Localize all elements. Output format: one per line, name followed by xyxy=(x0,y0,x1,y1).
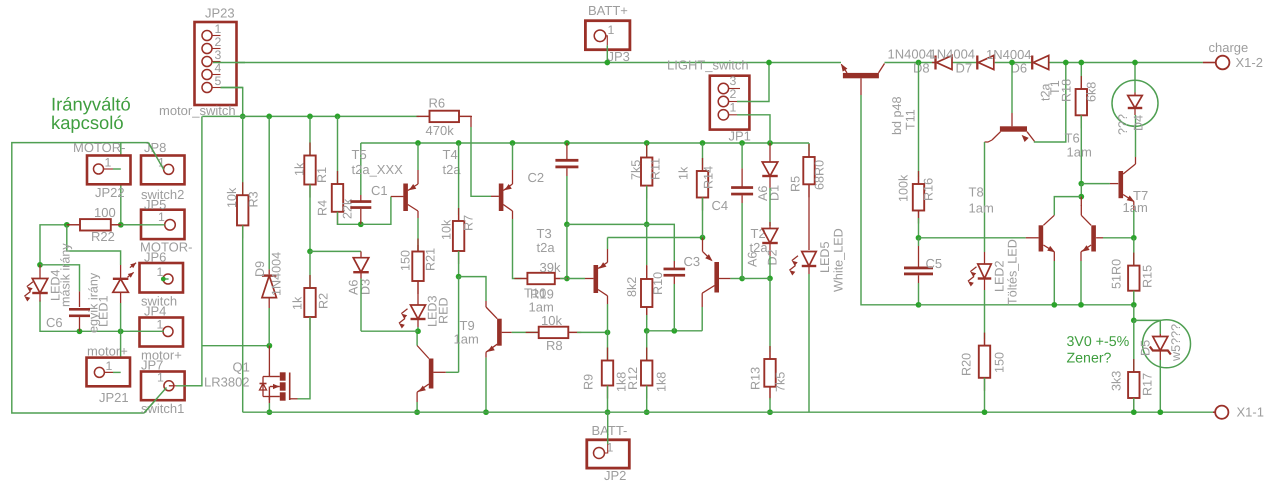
svg-text:LIGHT_switch: LIGHT_switch xyxy=(667,58,749,73)
svg-text:C4: C4 xyxy=(712,198,729,213)
svg-text:1am: 1am xyxy=(529,300,554,315)
junction T7 emitter node xyxy=(1131,235,1137,241)
wire BATT+ rail right of T11 to D8 xyxy=(885,62,936,64)
wire R2 bottom to Q1 gate xyxy=(298,317,311,399)
wire R12 column xyxy=(646,331,648,361)
junction T5 emitter xyxy=(415,140,421,146)
svg-text:T5: T5 xyxy=(352,147,367,162)
svg-text:T6: T6 xyxy=(1065,131,1080,146)
junction R10 bottom node xyxy=(644,328,650,334)
LED LED2 xyxy=(984,252,986,264)
wire R15 column xyxy=(1133,238,1135,266)
junction D2/R13 node xyxy=(767,276,773,282)
wire T9 collector red upper xyxy=(485,301,487,307)
wire T7 collector to D4 xyxy=(1135,115,1137,157)
wire R5 bottom to LED5 xyxy=(808,184,810,250)
resistor R7 xyxy=(458,215,460,221)
wire D2 bottom to node xyxy=(769,256,771,278)
wire D9 column upper xyxy=(268,116,270,269)
resistor R5 xyxy=(808,151,810,157)
svg-text:JP8: JP8 xyxy=(144,140,166,155)
diode D9 xyxy=(268,269,270,274)
svg-text:R4: R4 xyxy=(316,200,330,216)
resistor R13 xyxy=(769,352,771,359)
wire T5 emitter to rail xyxy=(417,143,419,170)
wire D6 to X1-2 segment xyxy=(1049,62,1203,64)
resistor R8 xyxy=(526,331,539,333)
wire R16 column upper xyxy=(918,63,920,178)
svg-text:1am: 1am xyxy=(969,201,994,216)
svg-text:R21: R21 xyxy=(424,248,438,271)
capacitor C3 xyxy=(673,261,675,269)
svg-text:1k: 1k xyxy=(291,296,305,310)
connector JP7 xyxy=(141,372,185,401)
svg-text:10k: 10k xyxy=(541,313,562,328)
circle D5 highlight xyxy=(1143,320,1191,368)
wire R18 node to pair collector node xyxy=(1080,184,1082,197)
capacitor C1 xyxy=(360,195,362,202)
wire C4 bottom to node xyxy=(741,203,743,279)
wire diagonal to JP8 xyxy=(148,143,163,170)
svg-text:100: 100 xyxy=(94,205,116,220)
junction R13 on rail xyxy=(767,409,773,415)
wire JP23 pin5 to motor_switch node xyxy=(221,88,243,117)
wire R7 bottom xyxy=(458,251,460,277)
wire T3 base xyxy=(567,278,585,280)
wire R4 bottom corner to node xyxy=(338,212,361,225)
LED LED3 xyxy=(417,281,419,305)
wire C2 bottom to node xyxy=(566,176,568,224)
junction R18 top on rail xyxy=(1078,60,1084,66)
transistor T10 xyxy=(702,238,704,252)
JP1 pin3 stub xyxy=(729,88,740,90)
svg-text:1: 1 xyxy=(106,359,113,373)
svg-text:RED: RED xyxy=(437,297,451,324)
junction C5 bottom / T11 base node xyxy=(916,302,922,308)
wire R20 bottom to rail xyxy=(984,378,986,412)
junction D1 top / JP1 pin1 xyxy=(767,140,773,146)
wire motor_switch rail left arm xyxy=(202,115,242,117)
T5 base stub xyxy=(391,196,404,198)
svg-text:R11: R11 xyxy=(649,158,663,180)
wire JP2 to ground rail xyxy=(607,412,609,444)
svg-text:R5: R5 xyxy=(789,176,803,192)
wire R8 right to T3 collector node xyxy=(577,331,608,333)
LED LED5 xyxy=(802,252,817,267)
wire JP21 stub overlay xyxy=(104,371,113,373)
diode D3 xyxy=(360,251,362,257)
wire D5 branch xyxy=(1134,320,1161,334)
connector JP4 xyxy=(140,318,184,347)
diode D6 xyxy=(1031,56,1033,70)
junction R20 on rail xyxy=(982,409,988,415)
wire T9 base to R8 xyxy=(512,331,539,333)
svg-text:JP21: JP21 xyxy=(99,390,129,405)
svg-text:R17: R17 xyxy=(1141,373,1155,396)
svg-text:LED2: LED2 xyxy=(993,260,1007,292)
wire JP7 diagonal overlay xyxy=(144,388,167,414)
svg-text:R15: R15 xyxy=(1141,265,1155,288)
wire JP22 row to riser xyxy=(113,168,121,170)
wire T7 emitter down to node xyxy=(1133,210,1135,238)
wire T8 base row xyxy=(919,237,1026,239)
svg-text:1am: 1am xyxy=(454,332,479,347)
svg-text:motor_switch: motor_switch xyxy=(159,103,236,118)
junction C4 bottom node xyxy=(739,276,745,282)
wire T3 emitter riser xyxy=(607,238,609,250)
wire R1 column upper xyxy=(309,116,311,155)
wire node down to R13 xyxy=(769,278,771,352)
resistor R11 xyxy=(646,145,648,158)
junction D5 on rail xyxy=(1157,409,1163,415)
svg-text:1: 1 xyxy=(157,318,164,332)
svg-text:LR3802: LR3802 xyxy=(204,375,250,390)
T4 base stub xyxy=(491,195,499,197)
svg-text:White_LED: White_LED xyxy=(832,228,846,292)
junction C2 bottom xyxy=(564,222,570,228)
wire R17 bottom to rail xyxy=(1133,398,1135,412)
svg-text:R22: R22 xyxy=(91,229,115,244)
svg-text:68R0: 68R0 xyxy=(813,160,827,190)
wire T6 base to T7 emitter node xyxy=(1103,237,1134,239)
wire R14 bottom to T10 emitter node xyxy=(702,198,704,238)
junction T1 lead on rail xyxy=(1063,60,1069,66)
svg-text:1: 1 xyxy=(158,210,165,224)
wire JP22 riser x120.8 xyxy=(120,143,122,225)
resistor R10 xyxy=(646,265,648,279)
capacitor C2 xyxy=(566,143,568,160)
svg-text:???: ??? xyxy=(1116,114,1130,135)
svg-text:R7: R7 xyxy=(462,215,476,231)
svg-text:1am: 1am xyxy=(1123,200,1148,215)
svg-text:JP2: JP2 xyxy=(604,468,626,483)
svg-text:R2: R2 xyxy=(317,293,331,309)
gate lead Q1 xyxy=(290,398,298,400)
wire left border net: JP8 row xyxy=(12,143,149,413)
resistor R20 xyxy=(984,339,986,346)
wire T5 collector to R21 xyxy=(417,218,419,252)
wire Q1 source to ground rail xyxy=(268,397,270,404)
svg-text:2: 2 xyxy=(215,35,222,49)
wire T1 right lead to rail xyxy=(1034,63,1066,143)
wire R12 bottom to rail xyxy=(646,386,648,413)
connector JP21 xyxy=(87,358,131,387)
svg-text:R13: R13 xyxy=(749,367,763,390)
svg-text:D2: D2 xyxy=(766,249,780,265)
svg-text:T4: T4 xyxy=(443,147,458,162)
wire JP22 stub overlay xyxy=(104,168,114,170)
wire JP23 pin3 into box xyxy=(213,62,245,64)
junction pair collector node xyxy=(1078,194,1084,200)
svg-text:10k: 10k xyxy=(225,187,239,208)
junction R16/C5/T8-base node xyxy=(916,235,922,241)
wire R13 bottom to rail xyxy=(769,387,771,398)
svg-text:JP4: JP4 xyxy=(144,304,166,319)
LED LED1 xyxy=(120,265,122,279)
transistor Q1 drain lead xyxy=(268,346,270,373)
wire T8 emitter down xyxy=(1053,261,1055,305)
resistor R1 xyxy=(309,143,311,156)
wire T7 base xyxy=(1081,183,1110,185)
svg-text:BATT-: BATT- xyxy=(592,423,628,438)
connector JP2 xyxy=(587,440,630,468)
svg-text:1: 1 xyxy=(608,23,615,37)
svg-text:2: 2 xyxy=(730,87,737,101)
svg-text:3V0 +-5%: 3V0 +-5% xyxy=(1067,334,1130,350)
wire R22 right to JP5 xyxy=(121,224,165,226)
wire C1 top to emitter rail xyxy=(360,143,362,195)
svg-text:470k: 470k xyxy=(426,123,455,138)
svg-text:charge: charge xyxy=(1209,40,1249,55)
wire JP7 right lead overlay xyxy=(169,385,176,387)
junction C3 bottom xyxy=(671,328,677,334)
junction T7 base node xyxy=(1078,181,1084,187)
svg-text:JP3: JP3 xyxy=(608,49,630,64)
junction R17 on rail xyxy=(1131,409,1137,415)
wire R4 column upper xyxy=(337,116,339,184)
wire R10-C3-T10 row xyxy=(647,330,703,332)
transistor T1 xyxy=(1011,113,1013,126)
wire bottom LED row y331.3 xyxy=(40,301,164,332)
svg-text:1N4004: 1N4004 xyxy=(270,252,284,296)
svg-text:1N4004: 1N4004 xyxy=(888,47,934,62)
wire R14 column upper xyxy=(702,143,704,165)
wire LED5 bottom to ground rail xyxy=(808,274,810,412)
wire R20 column xyxy=(984,305,986,339)
svg-text:6k8: 6k8 xyxy=(1085,82,1099,102)
wire D4 top from rail xyxy=(1134,63,1136,93)
svg-text:150: 150 xyxy=(993,352,1007,373)
capacitor C5 xyxy=(918,246,920,267)
wire R19 right lead xyxy=(560,278,567,280)
junction R14 top xyxy=(700,140,706,146)
junction T9 emitter on rail xyxy=(483,409,489,415)
transistor T7 xyxy=(1119,171,1124,198)
transistor T2 xyxy=(417,346,429,359)
svg-text:JP5: JP5 xyxy=(144,197,166,212)
wire R3 column upper xyxy=(242,116,244,195)
transistor T4 xyxy=(499,184,504,212)
wire JP23 pin5 into box xyxy=(221,87,243,89)
JP3 pin stub xyxy=(606,36,608,46)
wire C4 node to D2 node xyxy=(742,277,770,279)
junction R7 bottom xyxy=(456,274,462,280)
wire JP7 right lead to Q1 drain node xyxy=(174,116,202,385)
wire JP1 pin1 to emitter rail xyxy=(729,114,737,116)
wire LED3 bottom to node xyxy=(417,327,419,331)
wire D3 bottom to node xyxy=(360,279,362,332)
svg-text:kapcsoló: kapcsoló xyxy=(51,112,124,133)
wire T2 collector from LED3 node xyxy=(416,331,418,345)
LED LED4 xyxy=(39,265,41,279)
svg-text:MOTOR-: MOTOR- xyxy=(73,140,125,155)
svg-text:1: 1 xyxy=(105,156,112,170)
wire R9 bottom to rail xyxy=(607,386,609,413)
wire node to D3 xyxy=(310,250,361,252)
diode D7 xyxy=(976,56,978,70)
wire R22 left arm xyxy=(40,225,67,265)
svg-text:R10: R10 xyxy=(651,272,665,295)
wire R17 column xyxy=(1133,320,1135,372)
svg-text:7k5: 7k5 xyxy=(629,160,643,180)
wire emitter row y304.8 xyxy=(919,304,1134,306)
svg-text:Töltés_LED: Töltés_LED xyxy=(1006,239,1020,305)
resistor R9 xyxy=(607,348,609,361)
svg-text:T3: T3 xyxy=(537,226,552,241)
resistor R16 xyxy=(918,177,920,184)
junction R15 on row xyxy=(1131,302,1137,308)
svg-text:X1-2: X1-2 xyxy=(1236,55,1263,70)
wire T8 collector arm xyxy=(1054,197,1081,216)
junction R22 left xyxy=(64,222,70,228)
svg-text:T8: T8 xyxy=(969,185,984,200)
junction T1 base on rail xyxy=(1009,60,1015,66)
connector JP5 xyxy=(141,210,185,239)
wire R11 bottom to node xyxy=(646,186,648,225)
svg-text:8k2: 8k2 xyxy=(625,277,639,297)
transistor T9 xyxy=(486,307,497,319)
wire T6 emitter down xyxy=(1080,261,1082,305)
wire R18 column upper xyxy=(1080,63,1082,84)
svg-text:R8: R8 xyxy=(546,338,563,353)
resistor R18 xyxy=(1080,83,1082,89)
wire T11 base down xyxy=(861,95,919,305)
diode D8 xyxy=(932,62,935,64)
terminal X1-2 xyxy=(1203,62,1216,64)
svg-text:1: 1 xyxy=(730,101,737,115)
svg-text:D4: D4 xyxy=(1132,115,1146,131)
junction R4 top xyxy=(335,114,341,120)
circle D4 highlight xyxy=(1112,80,1158,126)
svg-text:JP1: JP1 xyxy=(729,129,751,144)
junction T6 emitter on row xyxy=(1078,302,1084,308)
wire R15 node down xyxy=(1133,305,1135,321)
wire C6 top stub xyxy=(79,291,81,307)
wire JP6 pin stub net xyxy=(163,278,168,280)
resistor R12 xyxy=(646,348,648,361)
svg-text:100k: 100k xyxy=(897,174,911,202)
wire C4 column upper xyxy=(741,143,743,168)
resistor R6 xyxy=(419,115,430,117)
junction R1 top xyxy=(307,114,313,120)
svg-text:1k: 1k xyxy=(293,162,307,176)
junction LED3/D3/T2 node xyxy=(415,328,421,334)
junction LED1 bottom / JP21 branch xyxy=(118,328,124,334)
svg-text:3: 3 xyxy=(730,74,737,88)
junction R1-R2 node xyxy=(307,249,313,255)
wire BATT+ rail y62.5 xyxy=(213,62,841,64)
svg-text:BATT+: BATT+ xyxy=(588,3,628,18)
connector JP6 xyxy=(140,263,184,293)
svg-text:T11: T11 xyxy=(904,109,918,130)
wire D3 node horizontal xyxy=(361,330,418,332)
wire T10 collector down to row xyxy=(701,307,703,331)
svg-text:R6: R6 xyxy=(429,96,446,111)
wire R3 column lower to ground rail xyxy=(242,225,244,412)
wire T3 collector node to R9 xyxy=(607,332,609,360)
wire T2 emitter to ground rail xyxy=(416,402,418,412)
wire T1 left lead to LED2 column xyxy=(985,140,993,142)
svg-text:10k: 10k xyxy=(440,219,454,240)
connector JP1 xyxy=(710,76,750,130)
svg-text:JP6: JP6 xyxy=(144,250,166,265)
svg-text:3k3: 3k3 xyxy=(1110,371,1124,391)
junction T4 emitter xyxy=(510,140,516,146)
wire R7 column upper xyxy=(458,143,460,215)
wire JP3 to BATT+ rail xyxy=(606,45,608,62)
resistor R21 xyxy=(417,245,419,252)
wire D7-D6 segment xyxy=(995,62,1032,64)
connector JP8 xyxy=(141,156,185,185)
junction R11 top xyxy=(644,140,650,146)
wire node row to C3 corner xyxy=(647,224,675,261)
terminal X1-1 xyxy=(1213,411,1216,413)
resistor R19 xyxy=(522,278,528,280)
transistor T5 xyxy=(403,184,408,212)
wire diagonal to JP7 xyxy=(144,388,167,414)
wire R7 node to T9 collector xyxy=(459,277,486,301)
diode D1 xyxy=(769,143,771,162)
wire R1 bottom to node xyxy=(309,185,311,252)
wire D8-D7 segment xyxy=(953,62,977,64)
junction Q1 drain / D9 bottom xyxy=(267,343,273,349)
transistor T8 xyxy=(1043,215,1054,225)
wire JP4 lead overlay xyxy=(130,330,164,332)
wire emitter rail y143 xyxy=(361,142,809,144)
svg-text:7k5: 7k5 xyxy=(774,372,788,392)
svg-text:D5: D5 xyxy=(1139,340,1153,356)
svg-text:C6: C6 xyxy=(46,315,63,330)
svg-text:t2a_XXX: t2a_XXX xyxy=(352,162,404,177)
resistor R3 xyxy=(242,182,244,195)
resistor R4 xyxy=(337,171,339,184)
wire D9 bottom to Q1 drain node xyxy=(268,308,270,346)
svg-text:R1: R1 xyxy=(315,167,329,183)
connector JP22 xyxy=(87,156,131,185)
svg-text:LED5: LED5 xyxy=(818,241,832,273)
svg-text:3: 3 xyxy=(215,48,222,62)
junction JP4 pin xyxy=(161,329,166,334)
junction JP3 on BATT+ rail xyxy=(604,60,610,66)
wire R6 right down to T4 base xyxy=(470,116,472,127)
svg-text:1k8: 1k8 xyxy=(655,372,669,392)
wire T4 collector down to R19 xyxy=(513,219,522,279)
wire R7 node down to T2 base xyxy=(458,277,460,373)
junction D4 on rail xyxy=(1132,60,1138,66)
junction R7 top xyxy=(456,140,462,146)
wire T1 base from rail xyxy=(1011,63,1013,114)
junction R16 top on rail xyxy=(916,60,922,66)
svg-text:D7: D7 xyxy=(956,61,973,76)
resistor R22 xyxy=(67,224,80,226)
wire R16 bottom to node xyxy=(918,211,920,219)
JP2 pin stub xyxy=(605,444,608,453)
junction motor_switch A xyxy=(240,114,246,120)
junction R9/JP2 on rail xyxy=(605,409,611,415)
wire R10 bottom to node xyxy=(646,307,648,315)
wire ground rail xyxy=(243,411,1213,413)
svg-text:JP7: JP7 xyxy=(141,358,163,373)
junction D9 top xyxy=(266,114,272,120)
junction T10 emitter node xyxy=(700,235,706,241)
junction C6 bottom xyxy=(77,328,83,334)
wire motor_switch rail to R6 xyxy=(243,115,419,117)
svg-text:39k: 39k xyxy=(540,260,561,275)
wire LED4 row to C6 xyxy=(40,265,80,292)
wire T3 emitter row to T10 xyxy=(608,237,703,239)
wire R11 column upper xyxy=(646,143,648,158)
capacitor C4 xyxy=(741,168,743,187)
